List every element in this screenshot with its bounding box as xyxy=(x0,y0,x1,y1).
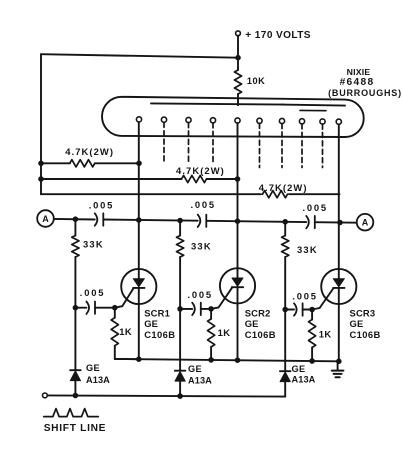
svg-text:10K: 10K xyxy=(247,76,265,86)
svg-text:#6488: #6488 xyxy=(340,77,375,88)
svg-text:(BURROUGHS): (BURROUGHS) xyxy=(328,88,402,98)
svg-text:1K: 1K xyxy=(119,326,132,337)
svg-text:1K: 1K xyxy=(218,327,231,338)
svg-text:+ 170 VOLTS: + 170 VOLTS xyxy=(245,30,311,41)
svg-text:A13A: A13A xyxy=(292,375,316,385)
svg-text:33K: 33K xyxy=(191,241,212,252)
svg-text:SCR1: SCR1 xyxy=(144,308,170,319)
svg-text:C106B: C106B xyxy=(144,329,175,340)
svg-text:SCR3: SCR3 xyxy=(350,308,376,319)
svg-text:4.7K(2W): 4.7K(2W) xyxy=(65,146,114,157)
svg-text:A13A: A13A xyxy=(188,376,212,386)
svg-text:GE: GE xyxy=(245,318,259,329)
svg-text:GE: GE xyxy=(350,318,364,329)
svg-text:SCR2: SCR2 xyxy=(245,308,271,319)
svg-text:A: A xyxy=(362,218,369,228)
svg-text:C106B: C106B xyxy=(245,329,276,340)
svg-text:.005: .005 xyxy=(188,289,213,300)
svg-text:GE: GE xyxy=(292,364,306,374)
svg-text:33K: 33K xyxy=(83,239,104,250)
svg-text:A13A: A13A xyxy=(86,375,110,385)
svg-text:.005: .005 xyxy=(89,199,114,210)
svg-text:.005: .005 xyxy=(303,202,328,213)
svg-text:SHIFT LINE: SHIFT LINE xyxy=(44,423,106,434)
svg-text:C106B: C106B xyxy=(350,329,381,340)
svg-text:GE: GE xyxy=(188,364,202,374)
svg-text:4.7K(2W): 4.7K(2W) xyxy=(176,165,225,176)
svg-text:NIXIE: NIXIE xyxy=(347,67,371,77)
svg-text:A: A xyxy=(42,214,49,224)
svg-text:.005: .005 xyxy=(292,290,317,301)
svg-text:4.7K(2W): 4.7K(2W) xyxy=(259,182,308,193)
svg-text:GE: GE xyxy=(86,363,100,373)
svg-text:33K: 33K xyxy=(297,244,318,255)
svg-text:.005: .005 xyxy=(191,199,216,210)
svg-text:.005: .005 xyxy=(80,287,105,298)
svg-text:1K: 1K xyxy=(319,329,332,340)
svg-text:GE: GE xyxy=(144,318,158,329)
